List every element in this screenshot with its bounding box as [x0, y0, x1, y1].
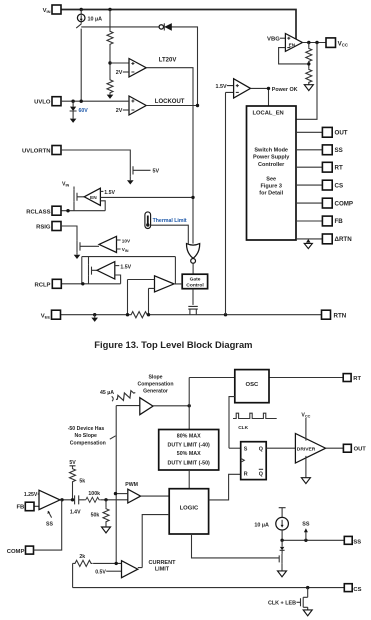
svg-text:Q: Q	[259, 446, 263, 452]
svg-text:Figure 13. Top Level Block Di: Figure 13. Top Level Block Diagram	[94, 339, 252, 350]
svg-text:LOCAL_EN: LOCAL_EN	[253, 110, 284, 116]
svg-text:SS: SS	[46, 522, 53, 528]
svg-text:Controller: Controller	[258, 162, 285, 168]
svg-text:No Slope: No Slope	[74, 433, 97, 439]
svg-text:RCLP: RCLP	[34, 283, 50, 289]
svg-text:VIN: VIN	[43, 8, 51, 14]
svg-text:0.5V: 0.5V	[95, 569, 106, 575]
svg-text:UVLO: UVLO	[34, 100, 51, 106]
svg-text:CLK: CLK	[238, 425, 248, 431]
svg-text:VBG: VBG	[267, 36, 280, 42]
svg-text:LT20V: LT20V	[159, 57, 177, 63]
svg-text:2k: 2k	[79, 554, 85, 560]
svg-text:1.5V: 1.5V	[104, 190, 115, 196]
svg-text:R: R	[244, 472, 248, 478]
svg-text:Compensation: Compensation	[70, 440, 106, 446]
svg-text:45 µA: 45 µA	[100, 390, 114, 396]
svg-text:FB: FB	[335, 218, 344, 225]
svg-text:CS: CS	[335, 182, 344, 189]
svg-text:S: S	[244, 446, 248, 452]
svg-text:Power OK: Power OK	[272, 87, 298, 93]
svg-text:5V: 5V	[69, 460, 76, 466]
svg-text:VIN: VIN	[122, 247, 129, 253]
svg-text:VCC: VCC	[338, 40, 348, 47]
svg-text:RT: RT	[353, 376, 361, 382]
svg-text:1.25V: 1.25V	[24, 492, 38, 498]
svg-text:LOGIC: LOGIC	[180, 506, 199, 512]
svg-text:10 µA: 10 µA	[254, 522, 269, 528]
svg-text:1.4V: 1.4V	[70, 509, 81, 515]
svg-text:SS: SS	[302, 521, 310, 527]
svg-text:EN: EN	[90, 195, 97, 201]
svg-text:5k: 5k	[79, 479, 85, 485]
svg-text:CS: CS	[353, 587, 361, 593]
svg-text:Thermal Limit: Thermal Limit	[153, 218, 187, 224]
svg-text:1.5V: 1.5V	[120, 264, 131, 270]
svg-text:10V: 10V	[122, 238, 131, 243]
svg-text:ΔRTN: ΔRTN	[335, 236, 353, 243]
svg-text:-50 Device Has: -50 Device Has	[68, 426, 105, 432]
svg-text:50k: 50k	[91, 513, 100, 519]
svg-text:OSC: OSC	[246, 382, 260, 388]
svg-text:Compensation: Compensation	[137, 381, 173, 387]
svg-text:OUT: OUT	[354, 447, 367, 453]
svg-text:RTN: RTN	[334, 312, 347, 319]
svg-text:DUTY LIMIT (-40): DUTY LIMIT (-40)	[168, 443, 211, 449]
svg-text:CURRENT: CURRENT	[149, 560, 177, 566]
svg-text:VIN: VIN	[62, 182, 70, 188]
svg-text:FB: FB	[16, 505, 24, 511]
svg-text:PWM: PWM	[125, 482, 138, 488]
svg-text:2V: 2V	[116, 70, 123, 76]
svg-text:SS: SS	[335, 147, 343, 154]
svg-text:50% MAX: 50% MAX	[177, 451, 201, 457]
svg-text:DUTY LIMIT (-50): DUTY LIMIT (-50)	[168, 461, 211, 467]
svg-text:DRIVER: DRIVER	[297, 446, 316, 452]
svg-text:Figure 3: Figure 3	[260, 184, 281, 190]
svg-text:COMP: COMP	[335, 200, 354, 207]
svg-text:RCLASS: RCLASS	[26, 210, 50, 216]
svg-text:SS: SS	[353, 540, 361, 546]
svg-text:60V: 60V	[79, 108, 89, 114]
svg-text:100k: 100k	[88, 491, 100, 497]
svg-text:Switch Mode: Switch Mode	[254, 148, 288, 154]
svg-text:10 µA: 10 µA	[88, 16, 103, 22]
svg-text:VEE: VEE	[41, 313, 51, 319]
svg-text:RSIG: RSIG	[36, 225, 51, 231]
svg-text:Generator: Generator	[143, 388, 168, 394]
svg-text:RT: RT	[335, 164, 343, 171]
svg-text:Control: Control	[186, 283, 204, 289]
svg-text:Slope: Slope	[148, 374, 162, 380]
svg-text:VCC: VCC	[301, 413, 310, 419]
svg-text:5V: 5V	[153, 169, 160, 175]
svg-text:2V: 2V	[116, 108, 123, 114]
svg-text:Power Supply: Power Supply	[253, 155, 290, 161]
svg-text:LIMIT: LIMIT	[155, 567, 170, 573]
svg-text:CLK + LEB: CLK + LEB	[268, 600, 296, 606]
svg-text:Q: Q	[259, 472, 263, 478]
svg-text:OUT: OUT	[335, 130, 348, 137]
svg-text:COMP: COMP	[7, 549, 25, 555]
svg-text:EN: EN	[289, 42, 296, 48]
svg-text:Gate: Gate	[190, 276, 201, 282]
svg-text:See: See	[266, 176, 276, 182]
svg-text:LOCKOUT: LOCKOUT	[155, 99, 185, 105]
svg-text:for Detail: for Detail	[259, 190, 283, 196]
svg-text:1.5V: 1.5V	[216, 84, 227, 90]
svg-text:UVLORTN: UVLORTN	[22, 149, 50, 155]
svg-text:80% MAX: 80% MAX	[177, 433, 201, 439]
